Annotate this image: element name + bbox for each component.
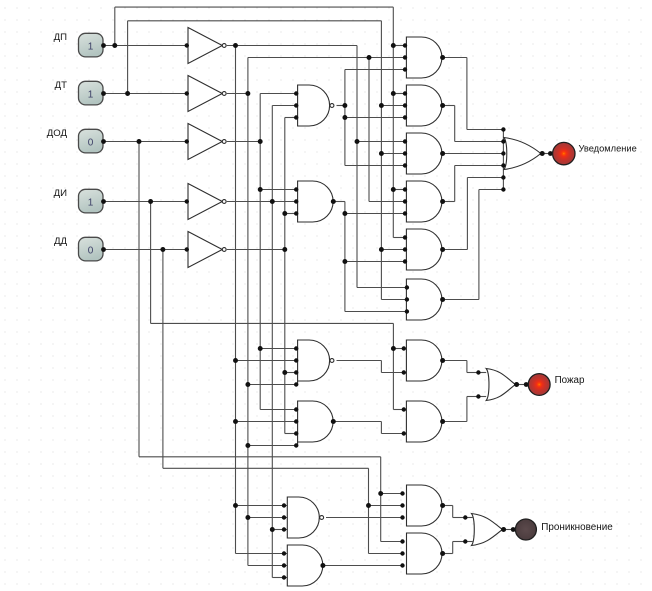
svg-text:1: 1 [88, 90, 94, 101]
svg-text:ДД: ДД [54, 236, 67, 247]
svg-text:1: 1 [88, 198, 94, 209]
svg-text:0: 0 [88, 246, 94, 257]
svg-text:ДИ: ДИ [54, 188, 67, 199]
svg-text:Уведомление: Уведомление [579, 143, 637, 153]
svg-text:0: 0 [88, 138, 94, 149]
svg-text:ДП: ДП [54, 32, 67, 43]
svg-text:Проникновение: Проникновение [541, 522, 613, 533]
svg-text:Пожар: Пожар [555, 375, 585, 386]
svg-text:ДОД: ДОД [47, 128, 68, 139]
svg-text:1: 1 [88, 42, 94, 53]
svg-text:ДТ: ДТ [55, 80, 67, 91]
